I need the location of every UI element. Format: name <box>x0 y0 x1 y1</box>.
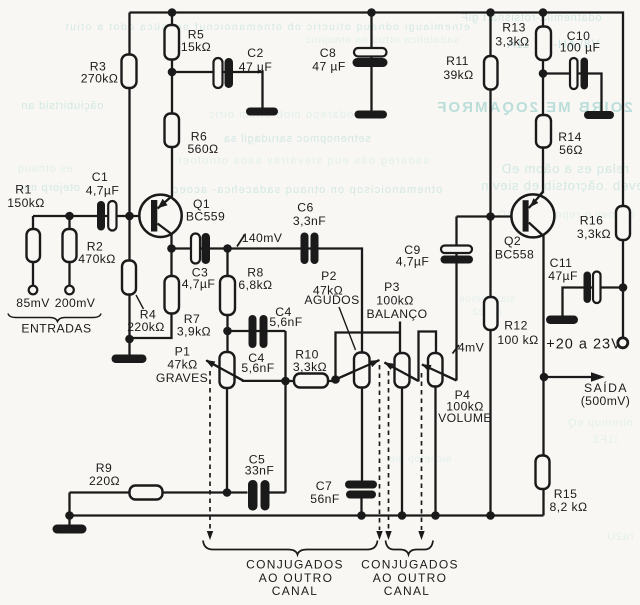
svg-text:4mV: 4mV <box>458 341 485 355</box>
svg-text:AO OUTRO: AO OUTRO <box>373 571 447 585</box>
node R13 top rail <box>539 8 548 17</box>
svg-text:3,3kΩ: 3,3kΩ <box>577 227 611 241</box>
node Q1 base R3-R4 <box>125 212 134 221</box>
arrowhead P2 wiper <box>369 360 379 367</box>
potentiometer P3 body <box>395 353 410 388</box>
resistor R11 <box>484 56 498 90</box>
brace ENTRADAS <box>8 314 101 322</box>
svg-text:270kΩ: 270kΩ <box>81 72 119 86</box>
node R5-R6-C2 <box>168 68 177 77</box>
arrowhead P3 wiper <box>384 362 394 370</box>
svg-text:oiremup eQ: oiremup eQ <box>567 417 632 429</box>
svg-text:R14: R14 <box>558 130 582 144</box>
capacitor C3 plates <box>191 234 200 264</box>
svg-text:R16: R16 <box>580 214 604 228</box>
svg-text:R9: R9 <box>96 461 112 475</box>
svg-text:3,3kΩ: 3,3kΩ <box>495 35 529 49</box>
wire SAIDA output <box>544 376 593 378</box>
node bottom rail left <box>65 511 74 520</box>
wire top supply rail and right rail <box>130 13 624 338</box>
svg-text:220kΩ: 220kΩ <box>127 320 165 334</box>
resistor R16 <box>616 206 630 240</box>
brace conjugados right <box>386 541 434 555</box>
wire R10 link <box>286 380 336 382</box>
svg-text:(500mV): (500mV) <box>581 394 631 408</box>
node C3-R8 signal <box>223 244 232 253</box>
svg-text:CANAL: CANAL <box>272 584 319 598</box>
terminal input 200mV <box>65 286 74 295</box>
capacitor C4 plates <box>249 315 257 348</box>
wire P2 wiper <box>336 361 379 380</box>
svg-text:R12: R12 <box>504 319 528 333</box>
svg-text:220Ω: 220Ω <box>89 474 120 488</box>
wire node link P2wiper to P3 top <box>336 333 401 380</box>
svg-text:C11: C11 <box>550 256 573 270</box>
svg-text:85mV: 85mV <box>16 296 50 310</box>
resistor R14 <box>536 115 551 148</box>
svg-text:l1F3: l1F3 <box>593 434 618 446</box>
wire R8 branch down to P1 <box>226 249 228 353</box>
node C4-R10-C5 <box>281 377 290 386</box>
potentiometer P4 wiper arm <box>422 365 457 381</box>
svg-text:odatnemila-rotsisnart giF: odatnemila-rotsisnart giF <box>460 12 601 24</box>
svg-text:56nF: 56nF <box>310 492 339 506</box>
wire C7 bottom stub <box>360 499 362 516</box>
wire C10 link to ground <box>543 74 602 112</box>
wire bottom rail <box>70 514 544 516</box>
svg-text:C6: C6 <box>297 201 313 215</box>
svg-text:C2: C2 <box>247 46 263 60</box>
node R5 top rail <box>168 8 177 17</box>
node P1 bottom R9 <box>223 488 232 497</box>
capacitor C2 plates <box>214 58 223 88</box>
resistor R13 <box>536 27 551 61</box>
capacitor C5 plates <box>248 480 258 511</box>
wire P3 top stub with label pointer <box>399 322 401 354</box>
wire signal node to C6 and down to P2 <box>228 249 363 353</box>
arrow dashed P3 <box>385 531 391 540</box>
svg-text:relaq es a oãom eD: relaq es a oãom eD <box>501 161 629 176</box>
ground C8 <box>355 111 388 119</box>
svg-text:15kΩ: 15kΩ <box>181 40 211 54</box>
capacitor C11 plates <box>584 272 592 304</box>
wire P3 bottom <box>401 388 403 516</box>
resistor R6 <box>165 114 180 148</box>
tick 4mV <box>453 345 460 354</box>
svg-text:AGUDOS: AGUDOS <box>304 293 359 307</box>
svg-text:470kΩ: 470kΩ <box>78 252 116 266</box>
resistor R1 <box>27 229 41 262</box>
capacitor C9 plates <box>441 246 472 254</box>
dashed conjugate line P1 <box>209 371 211 530</box>
wire R3-R4 branch <box>128 13 130 355</box>
svg-text:CONJUGADOS: CONJUGADOS <box>246 558 344 572</box>
svg-text:3,9kΩ: 3,9kΩ <box>177 325 211 339</box>
resistor R2 <box>63 229 77 262</box>
svg-text:sadatehca ortuo oa otnujnoc: sadatehca ortuo oa otnujnoc <box>305 34 459 46</box>
svg-text:3,3kΩ: 3,3kΩ <box>293 360 327 374</box>
brace conjugados left <box>203 541 378 555</box>
wire C8 stem <box>370 13 372 112</box>
wire R11-R12 branch <box>489 13 491 516</box>
svg-text:C7: C7 <box>316 479 332 493</box>
potentiometer P1 body <box>220 352 235 388</box>
capacitor C1 plates <box>97 201 105 231</box>
svg-text:4,7µF: 4,7µF <box>86 184 119 198</box>
arrow dashed P1 <box>207 531 213 540</box>
dashed conjugate line P4 <box>421 373 423 530</box>
svg-text:560Ω: 560Ω <box>187 142 218 156</box>
wire C2 link to ground <box>172 72 263 108</box>
ground R9 <box>53 525 87 534</box>
svg-text:BC559: BC559 <box>186 210 225 224</box>
svg-text:33nF: 33nF <box>245 464 274 478</box>
node C7 bottom rail <box>357 511 366 520</box>
wire P1 bottom <box>226 388 228 493</box>
terminal input 85mV <box>29 286 38 295</box>
terminal supply +20a23V <box>618 338 628 348</box>
node R8-C4 <box>223 327 232 336</box>
svg-text:4,7µF: 4,7µF <box>396 255 429 269</box>
svg-text:56Ω: 56Ω <box>559 143 583 157</box>
svg-text:47µF: 47µF <box>548 269 578 283</box>
resistor R12 <box>484 297 498 330</box>
wire P4 bottom <box>434 387 436 516</box>
svg-text:5,6nF: 5,6nF <box>269 315 302 329</box>
resistor R4 <box>122 261 136 295</box>
node R4-R7 ground <box>125 335 134 344</box>
svg-text:eveb .oãçrotsib eb sievin: eveb .oãçrotsib eb sievin <box>480 178 640 193</box>
arrowhead P1 wiper <box>205 360 215 368</box>
resistor R5 <box>165 25 180 60</box>
svg-text:6,8kΩ: 6,8kΩ <box>238 278 272 292</box>
svg-text:P2: P2 <box>321 269 337 283</box>
wire P4 wiper <box>422 365 457 381</box>
node R12 bottom rail <box>486 511 495 520</box>
wire C4 link <box>228 330 286 332</box>
ground C2 <box>246 108 278 116</box>
svg-text:P1: P1 <box>175 345 191 359</box>
potentiometer P1 wiper arm <box>207 361 244 381</box>
node P3 bottom rail <box>398 511 407 520</box>
node C11 right rail <box>619 283 628 292</box>
svg-text:es otnauq: es otnauq <box>17 163 73 175</box>
wire R9 left leg to ground <box>68 493 70 527</box>
resistor R9 horizontal <box>130 486 163 500</box>
svg-text:SAÍDA: SAÍDA <box>584 380 628 395</box>
svg-text:oãçiubirtsid an: oãçiubirtsid an <box>21 100 104 112</box>
arrowhead P4 wiper <box>422 364 432 371</box>
capacitor C7 plates <box>345 481 377 489</box>
wire Q2 collector chain to R15 <box>529 223 544 516</box>
node C8 top rail <box>367 8 376 17</box>
svg-text:3,3nF: 3,3nF <box>293 214 326 228</box>
node R11 top rail <box>486 8 495 17</box>
wire C5 to mid vertical <box>270 491 286 493</box>
node Q2 base divider <box>486 212 495 221</box>
potentiometer P4 body <box>428 353 443 387</box>
dashed conjugate line P3 <box>388 371 390 530</box>
svg-text:GRAVES: GRAVES <box>156 371 208 385</box>
svg-text:ENTRADAS: ENTRADAS <box>21 322 91 336</box>
wire P3 wiper <box>385 363 419 382</box>
svg-text:200mV: 200mV <box>55 296 96 310</box>
potentiometer P2 wiper arm <box>336 360 380 380</box>
wire input node horizontal <box>33 215 151 217</box>
pointer R4 label <box>136 295 144 309</box>
potentiometer P3 wiper arm <box>385 363 419 382</box>
resistor R10 horizontal <box>294 374 328 388</box>
wire Q2 emitter chain R13-R14 <box>529 13 543 209</box>
svg-text:C1: C1 <box>92 170 108 184</box>
dashed conjugate line P2 <box>379 365 381 530</box>
svg-text:etnemlaugi odnauq otiucric ob: etnemlaugi odnauq otiucric ob otnemanoic… <box>64 21 470 33</box>
svg-text:100kΩ: 100kΩ <box>376 294 414 308</box>
svg-text:+20 a 23V: +20 a 23V <box>546 337 622 353</box>
node Q1 collector C3 <box>167 244 176 253</box>
svg-text:CANAL: CANAL <box>384 584 431 598</box>
svg-text:R11: R11 <box>446 54 469 68</box>
wire C9 branch vertical <box>455 217 457 381</box>
svg-text:8,2 kΩ: 8,2 kΩ <box>550 500 588 514</box>
ground R4 <box>112 355 147 364</box>
arrow dashed P4 <box>418 531 424 540</box>
svg-text:rodarepo mob otium oiric: rodarepo mob otium oiric <box>208 109 358 121</box>
svg-text:100 µF: 100 µF <box>560 41 601 55</box>
wire R1 stub <box>32 216 34 286</box>
svg-text:47kΩ: 47kΩ <box>167 358 197 372</box>
wire Q1 emitter chain R5-R6 <box>158 13 173 209</box>
wire P4 top loop <box>419 332 437 382</box>
node R13-R14-C10 <box>539 69 548 78</box>
svg-text:setnenopmoc sarudagil sa: setnenopmoc sarudagil sa <box>223 133 371 145</box>
svg-text:sadareg oãs euq sieváirav saos: sadareg oãs euq sieváirav saos otnofoet <box>177 155 429 167</box>
svg-text:140mV: 140mV <box>242 231 283 245</box>
svg-text:100 kΩ: 100 kΩ <box>497 333 538 347</box>
svg-text:CONJUGADOS: CONJUGADOS <box>361 558 459 572</box>
svg-text:aicnetop me: aicnetop me <box>388 454 451 465</box>
svg-text:C8: C8 <box>320 46 336 60</box>
resistor R8 <box>220 276 235 315</box>
resistor R3 <box>122 55 137 89</box>
svg-text:BC558: BC558 <box>495 248 534 262</box>
svg-text:47 µF: 47 µF <box>312 60 345 74</box>
wire R9 row <box>70 491 248 493</box>
resistor R7 <box>165 276 180 314</box>
transistor Q1 <box>139 195 181 237</box>
arrowhead SAIDA <box>591 372 605 381</box>
potentiometer P2 body <box>354 353 370 388</box>
wire Q2 base <box>457 215 523 217</box>
wire Q1 collector chain to R7 and R4 ground node <box>130 224 172 339</box>
svg-text:39kΩ: 39kΩ <box>443 68 473 82</box>
pointer AGUDOS label to P2 <box>339 307 356 350</box>
wire C11 link to ground <box>563 288 624 317</box>
wire P2 bottom to C7 <box>361 388 363 482</box>
node P4 bottom rail <box>431 511 440 520</box>
svg-text:otnemanoicisop on otnauq sadac: otnemanoicisop on otnauq sadacehca- acoe… <box>172 184 443 196</box>
node SAIDA tap <box>540 373 549 382</box>
svg-text:5,6nF: 5,6nF <box>241 361 274 375</box>
node P2 wiper R10 <box>331 375 340 384</box>
capacitor C10 plates <box>570 58 578 89</box>
svg-text:VOLUME: VOLUME <box>438 411 492 425</box>
ground C11 <box>546 316 578 325</box>
svg-text:AO OUTRO: AO OUTRO <box>259 571 333 585</box>
capacitor C8 plates <box>354 48 387 57</box>
svg-text:Q2: Q2 <box>504 234 521 248</box>
svg-text:R1: R1 <box>15 183 31 197</box>
wire mid vertical C4-C5 <box>284 331 286 493</box>
node R2 top <box>65 212 74 221</box>
arrow dashed P2 <box>376 531 382 540</box>
transistor Q2 <box>511 192 554 238</box>
svg-text:ra2U: ra2U <box>606 531 633 543</box>
wire C3 link <box>172 247 228 249</box>
svg-text:BALANÇO: BALANÇO <box>366 307 427 321</box>
resistor R15 <box>536 456 550 490</box>
svg-text:150kΩ: 150kΩ <box>7 196 45 210</box>
svg-text:R13: R13 <box>502 21 526 35</box>
capacitor C6 plates <box>301 233 309 265</box>
svg-text:P3: P3 <box>384 280 400 294</box>
wire R2 stub <box>68 216 70 286</box>
svg-text:4,7µF: 4,7µF <box>182 277 215 291</box>
svg-text:47 µF: 47 µF <box>239 60 272 74</box>
tick 140mV <box>237 235 245 247</box>
svg-text:R15: R15 <box>554 487 578 501</box>
ground C10 <box>584 111 614 119</box>
wire P1 wiper tail <box>207 361 286 381</box>
